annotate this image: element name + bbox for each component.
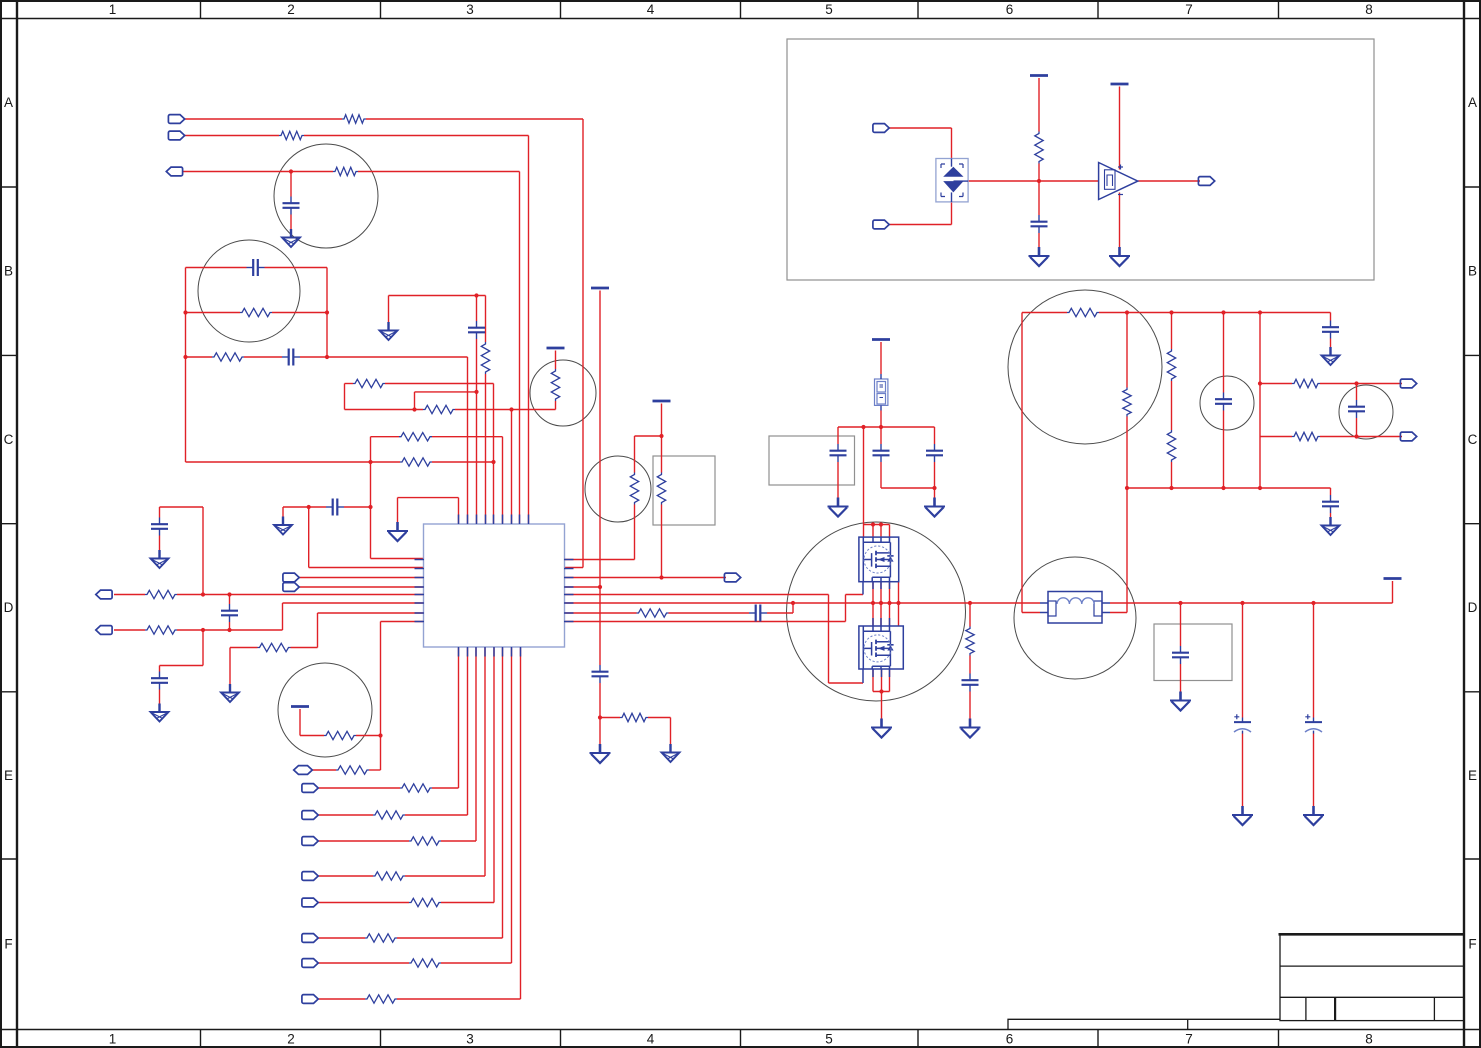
- svg-text:4: 4: [647, 1032, 655, 1047]
- svg-text:3: 3: [466, 1032, 474, 1047]
- svg-text:3: 3: [466, 2, 474, 17]
- svg-text:B: B: [1468, 264, 1477, 279]
- svg-text:7: 7: [1185, 2, 1193, 17]
- svg-text:C: C: [4, 432, 14, 447]
- svg-text:D: D: [4, 600, 14, 615]
- svg-text:6: 6: [1006, 2, 1014, 17]
- svg-text:A: A: [4, 95, 13, 110]
- svg-text:A: A: [1468, 95, 1477, 110]
- svg-text:8: 8: [1365, 2, 1373, 17]
- svg-text:1: 1: [109, 2, 117, 17]
- svg-text:C: C: [1468, 432, 1478, 447]
- svg-text:7: 7: [1185, 1032, 1193, 1047]
- svg-text:B: B: [4, 264, 13, 279]
- svg-text:5: 5: [825, 2, 833, 17]
- svg-text:E: E: [1468, 768, 1477, 783]
- svg-text:6: 6: [1006, 1032, 1014, 1047]
- svg-text:8: 8: [1365, 1032, 1373, 1047]
- svg-text:2: 2: [287, 1032, 295, 1047]
- svg-text:1: 1: [109, 1032, 117, 1047]
- svg-text:4: 4: [647, 2, 655, 17]
- svg-text:D: D: [1468, 600, 1478, 615]
- svg-text:F: F: [1468, 937, 1476, 952]
- svg-text:F: F: [4, 937, 12, 952]
- svg-text:5: 5: [825, 1032, 833, 1047]
- svg-text:2: 2: [287, 2, 295, 17]
- svg-text:E: E: [4, 768, 13, 783]
